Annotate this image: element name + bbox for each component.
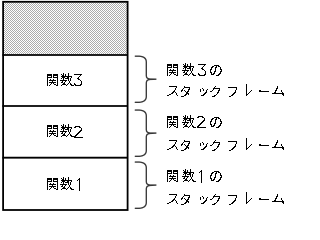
- brace for 関数1 frame: [135, 162, 156, 208]
- brace for 関数3 frame: [135, 56, 156, 102]
- divider line 1 (below free area): [2, 54, 128, 56]
- label text 関数3の: [167, 63, 222, 76]
- label text スタックフレーム (1): [167, 192, 284, 205]
- stack top free area (dithered): [4, 2, 127, 54]
- label text スタックフレーム (2): [167, 138, 284, 151]
- divider line 2: [2, 105, 128, 107]
- box label 関数2: [47, 124, 83, 138]
- label text スタックフレーム (3): [167, 84, 284, 97]
- label text 関数2の: [167, 115, 222, 128]
- box label 関数3: [47, 73, 82, 86]
- brace for 関数2 frame: [135, 110, 156, 156]
- label text 関数1の: [167, 169, 222, 183]
- stack outer box: [3, 2, 128, 210]
- divider line 3: [2, 157, 128, 159]
- box label 関数1: [47, 177, 80, 191]
